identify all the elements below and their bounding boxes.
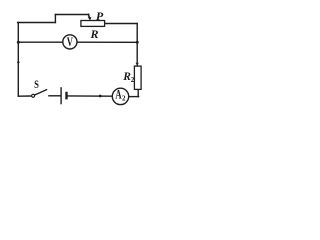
wire switch to battery [49, 95, 60, 97]
background [0, 0, 155, 118]
svg-text:R: R [90, 27, 99, 41]
svg-text:V: V [67, 35, 73, 49]
svg-text:S: S [34, 79, 39, 91]
svg-text:2: 2 [131, 76, 135, 84]
switch lever [35, 90, 47, 95]
svg-text:P: P [96, 9, 104, 23]
svg-text:A: A [115, 88, 121, 102]
potentiometer R body [81, 21, 105, 27]
ammeter A2 circle [112, 88, 128, 104]
battery long plate [60, 87, 62, 104]
wire bottom right horizontal [129, 96, 138, 98]
wire left vertical [17, 23, 19, 97]
node junction dot left [17, 41, 20, 44]
wire voltmeter left [18, 41, 62, 43]
wire right vertical [136, 24, 138, 67]
current dot on bottom wire [99, 95, 102, 98]
wire top step vertical [54, 15, 56, 23]
battery short thick plate [65, 92, 67, 100]
wire top upper horizontal [55, 14, 88, 16]
voltmeter U-V circle [63, 35, 77, 49]
resistor R2 body [134, 66, 141, 89]
wire below R2 vertical [137, 89, 139, 96]
current arrow on left wire [17, 62, 20, 65]
wire top-left horizontal [18, 22, 56, 24]
pot slider arrowhead [88, 17, 92, 21]
switch S contact circle [32, 94, 35, 97]
wire pot slider stem [89, 14, 90, 18]
wire battery to ammeter [68, 95, 113, 97]
current arrow above R2 [136, 63, 139, 66]
wire bottom-left horizontal to switch [18, 95, 31, 97]
svg-text:2: 2 [122, 94, 126, 102]
wire pot to right [105, 23, 138, 25]
node junction dot right [136, 41, 139, 44]
wire voltmeter right [77, 41, 137, 43]
